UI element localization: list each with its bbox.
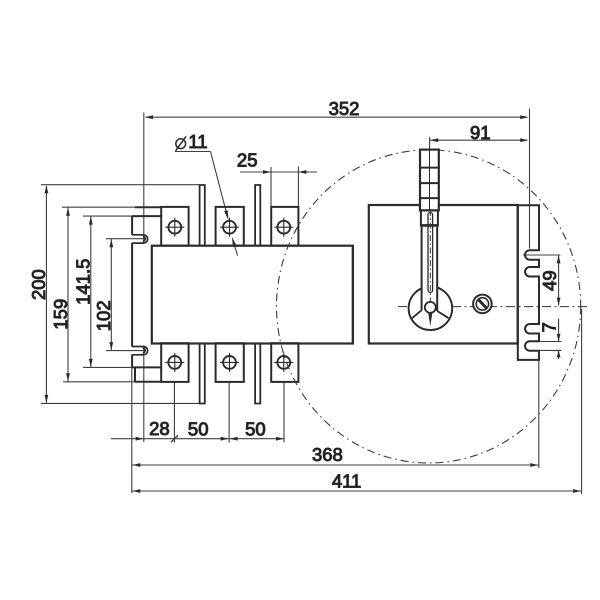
operating dial circle (409, 287, 453, 331)
handle swing envelope (dash-dot circle) (277, 150, 581, 463)
handle neck (421, 210, 438, 225)
terminal hole cross lines (165, 218, 293, 372)
dimension 411 (bottom) (132, 309, 582, 494)
bottom terminal 1 (161, 343, 188, 382)
left flange keyhole slot (top) (132, 235, 148, 243)
svg-text:102: 102 (93, 300, 114, 331)
svg-text:200: 200 (28, 269, 49, 300)
svg-text:411: 411 (332, 470, 362, 491)
svg-text:25: 25 (237, 149, 258, 170)
dimension 352 (144, 109, 530, 443)
shaft vertical centerline (429, 210, 431, 301)
dimension 28-50-50 (bottom) (111, 382, 284, 443)
handle shaft lower (422, 226, 438, 310)
top terminal 1 (161, 207, 188, 246)
left mounting flange (132, 207, 161, 382)
bottom terminal 3 (271, 343, 298, 382)
main switch body (152, 246, 353, 344)
svg-text:11: 11 (188, 131, 207, 152)
dimension 200 (left) (41, 185, 200, 404)
busbar plate top 2 (255, 185, 260, 246)
dial pointer (428, 313, 432, 327)
svg-text:49: 49 (539, 270, 560, 291)
bottom terminal 2 (216, 343, 244, 382)
dimension 49 (right) (523, 255, 561, 306)
svg-text:159: 159 (50, 299, 71, 330)
dimension 159 (left) (62, 207, 135, 382)
svg-text:368: 368 (312, 444, 343, 465)
padlock screw (473, 295, 492, 314)
svg-text:91: 91 (470, 122, 491, 143)
left flange keyhole slot (bottom) (132, 347, 148, 355)
top terminal 2 (216, 207, 244, 246)
dimension 102 (left) (106, 239, 144, 351)
svg-text:50: 50 (245, 418, 266, 439)
handle shaft slot (428, 213, 433, 293)
label diameter 11 with leader (176, 136, 186, 150)
terminal holes (all six) (168, 221, 290, 369)
dimension 7 (right) (539, 319, 562, 360)
svg-text:50: 50 (188, 418, 209, 439)
dimension 91 (430, 137, 529, 211)
handle grip (420, 150, 439, 211)
body/actuator divider (352, 246, 354, 344)
dimension 368 (bottom) (132, 361, 539, 494)
busbar plate bottom 2 (255, 343, 260, 403)
svg-text:141.5: 141.5 (72, 259, 93, 305)
svg-text:28: 28 (149, 418, 170, 439)
grip centerline (429, 150, 431, 210)
busbar plate top 1 (200, 185, 205, 246)
dial hub circle (425, 302, 436, 313)
top terminal 3 (271, 207, 298, 246)
motor actuator box (369, 205, 518, 344)
svg-text:352: 352 (329, 98, 360, 119)
right mounting flange (518, 205, 539, 360)
dimension 141.5 (left) (83, 216, 132, 367)
svg-text:7: 7 (539, 322, 560, 332)
dial wings (411, 310, 421, 319)
busbar plate bottom 1 (200, 343, 205, 403)
dimension 25 (240, 167, 317, 207)
horizontal centerline (398, 306, 587, 308)
